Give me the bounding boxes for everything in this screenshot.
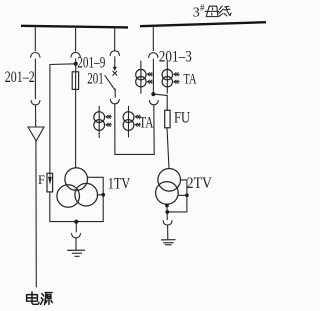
wire: 201-9 drop from left bus <box>75 27 77 51</box>
wire: branch to fuse F <box>50 64 76 174</box>
wire: contact to ground <box>75 238 77 250</box>
current transformer TA (mid-right) <box>123 106 141 137</box>
wire: tie rail <box>115 153 154 155</box>
label 3#母线 <box>193 3 231 21</box>
cable terminal triangle <box>28 127 44 141</box>
open point x-mark of switch 201 <box>113 71 117 75</box>
wire: 201 down to tie rail <box>114 104 116 155</box>
contact arc (bottom) of 201-2 <box>31 101 40 105</box>
ground 1TV <box>68 250 85 256</box>
node: junction 201-3 <box>151 92 155 96</box>
current transformer TA (right branch, left) <box>136 61 153 93</box>
wire: FU branch drop <box>166 95 168 110</box>
wire: 2TV bottom drop <box>166 204 168 220</box>
node: 2TV winding junction <box>185 193 189 197</box>
svg-text:201–2: 201–2 <box>5 69 35 86</box>
contact arc (top) of 201-2 <box>31 53 40 58</box>
node: 2TV bottom circle tap <box>165 204 169 208</box>
wire: 201 with arrowhead <box>114 57 116 67</box>
switch blade 201 <box>105 76 115 91</box>
wire: fuse F to bottom rail <box>49 192 51 222</box>
fuse FU <box>165 110 170 128</box>
contact arc (ground, 1TV) <box>72 234 81 238</box>
contact arc (bottom) of 201 <box>110 100 119 104</box>
contact arc (bottom) of 201-3 <box>149 101 158 105</box>
wire: incoming source line <box>35 141 37 287</box>
wire: 201-2 drop from left bus <box>34 27 36 51</box>
wire: to ground contact <box>75 222 77 232</box>
wire: 1TV winding stub <box>98 194 104 196</box>
voltage transformer 1TV <box>57 168 98 208</box>
svg-text:3: 3 <box>193 6 200 21</box>
wire: fuse to 1TV <box>75 72 77 168</box>
wire: contact to ground 2TV <box>167 225 169 239</box>
wire: 201-9 contact to fuse <box>75 59 77 72</box>
wire: 201-3 drop from right bus <box>152 25 154 50</box>
wire: blade to contact <box>114 89 116 97</box>
contact arc of 201-9 <box>71 52 80 57</box>
wire: junction to FU branch <box>153 94 167 95</box>
fuse (201-9 branch) <box>72 72 78 90</box>
svg-text:#: # <box>200 3 205 13</box>
left busbar <box>21 26 128 28</box>
svg-text:1TV: 1TV <box>108 176 131 193</box>
svg-text:TA: TA <box>184 72 197 88</box>
wire: 2TV winding stub <box>178 194 187 196</box>
svg-text:FU: FU <box>174 109 190 126</box>
node: junction 201-9 <box>74 62 78 66</box>
right busbar <box>140 22 266 26</box>
wire: 201-3 down to tie rail <box>153 105 155 155</box>
wire: 1TV right link <box>88 177 104 221</box>
svg-text:201–9: 201–9 <box>77 55 105 72</box>
wire: 2TV right link <box>168 180 187 212</box>
wire: 201-2 between contacts <box>34 59 36 99</box>
label 电源 <box>27 292 53 305</box>
voltage transformer 2TV <box>156 169 181 205</box>
svg-text:201: 201 <box>87 70 104 87</box>
wire: 1TV bottom rail <box>50 221 103 223</box>
svg-text:2TV: 2TV <box>187 175 212 192</box>
contact arc of 201-3 <box>149 53 158 58</box>
node: ground junction 1TV <box>74 220 78 224</box>
ground 2TV <box>162 240 176 245</box>
node: 1TV right junction <box>101 193 105 197</box>
svg-text:F: F <box>38 173 45 187</box>
svg-text:TA: TA <box>139 114 154 131</box>
wire: 201-2 to cable terminal <box>35 105 37 127</box>
contact arc (top) of 201 <box>110 51 119 56</box>
current transformer TA (right branch, right) <box>162 61 179 93</box>
current transformer TA (mid-left) <box>94 106 112 137</box>
node: ground junction 2TV <box>165 210 169 214</box>
wire: FU to 2TV <box>167 128 169 169</box>
contact arc (ground, 2TV) <box>163 221 172 225</box>
fuse F with striker <box>47 173 53 192</box>
svg-text:201–3: 201–3 <box>159 48 192 65</box>
wire: 201-3 to junction <box>152 59 154 94</box>
wire: 201 drop from left bus <box>114 27 116 51</box>
